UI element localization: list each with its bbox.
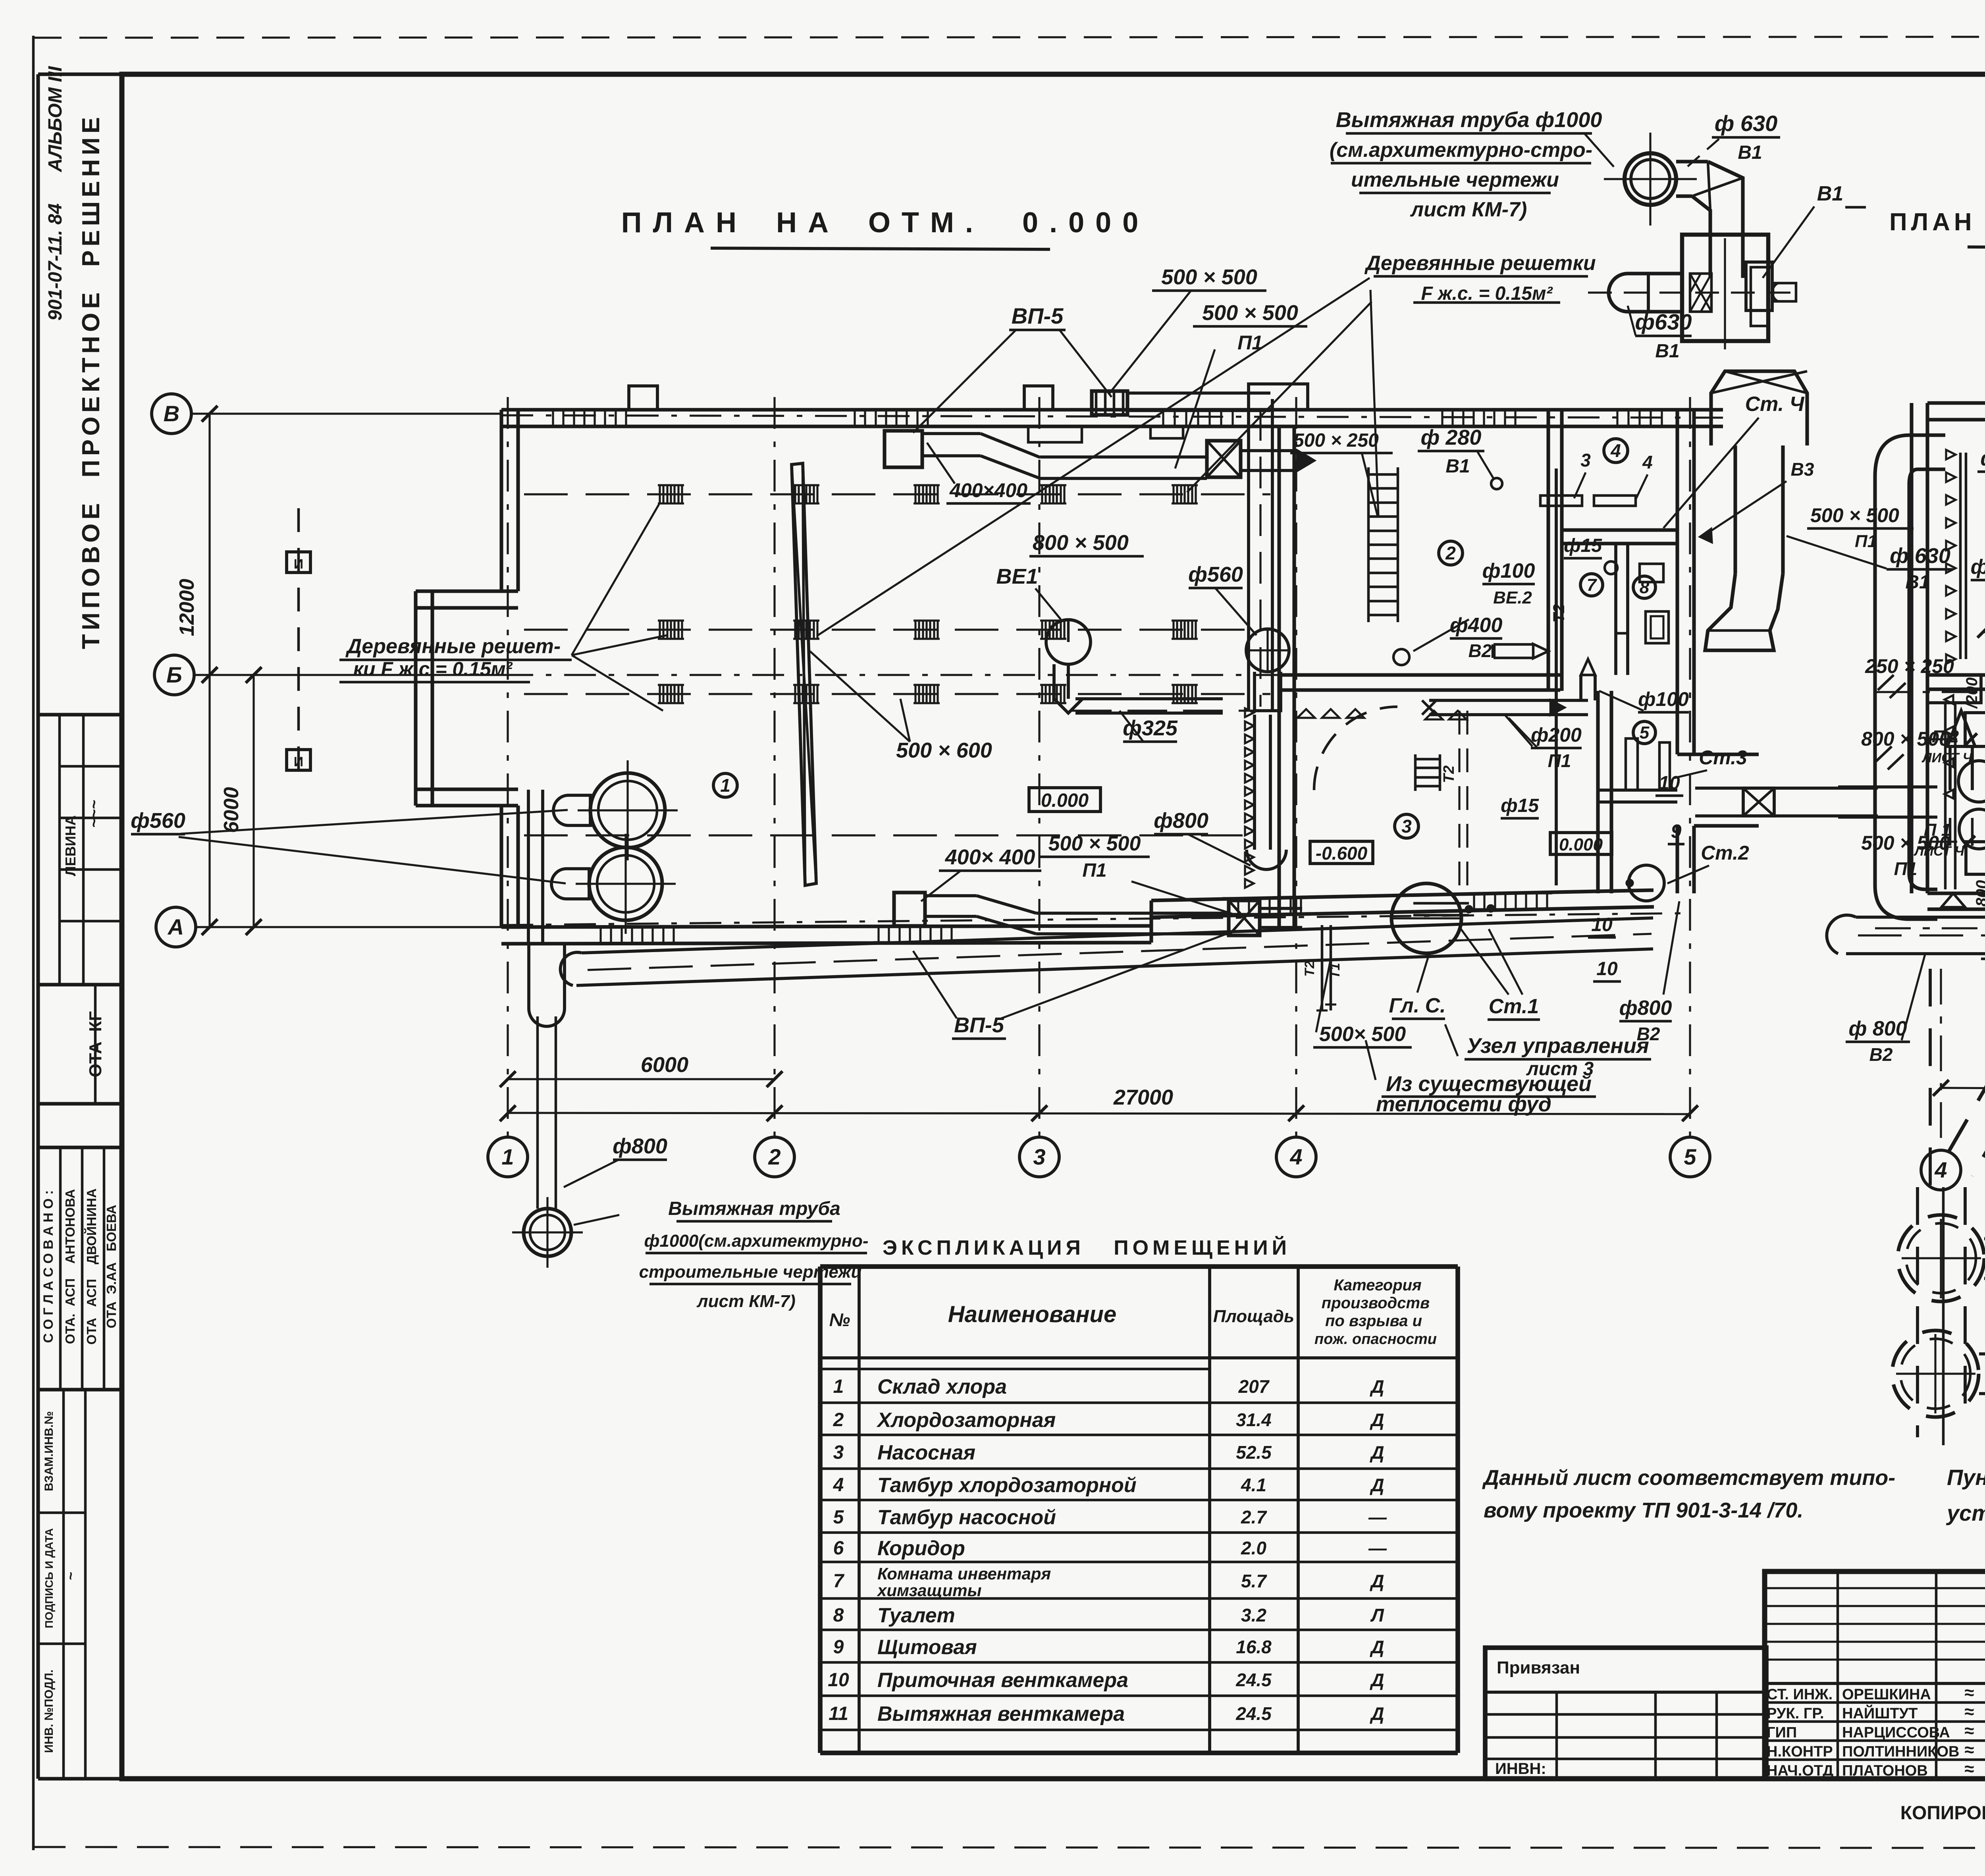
svg-text:Щитовая: Щитовая xyxy=(877,1636,977,1659)
svg-text:ительные чертежи: ительные чертежи xyxy=(1351,168,1559,191)
svg-text:Д: Д xyxy=(1369,1376,1384,1397)
svg-text:3: 3 xyxy=(833,1442,844,1463)
svg-text:7: 7 xyxy=(833,1571,845,1592)
svg-text:В1: В1 xyxy=(1445,456,1470,477)
svg-text:Деревянные решетки: Деревянные решетки xyxy=(1364,252,1596,275)
svg-text:3.2: 3.2 xyxy=(1241,1605,1266,1625)
svg-text:ф 630: ф 630 xyxy=(1890,544,1950,568)
svg-text:Вытяжная труба: Вытяжная труба xyxy=(668,1198,840,1219)
svg-text:Т2: Т2 xyxy=(1441,765,1457,783)
svg-text:производств: производств xyxy=(1322,1294,1430,1312)
svg-text:F ж.с. = 0.15м²: F ж.с. = 0.15м² xyxy=(1421,283,1553,304)
svg-text:1: 1 xyxy=(720,775,730,796)
svg-text:Вытяжная труба ф1000: Вытяжная труба ф1000 xyxy=(1336,108,1602,132)
svg-text:0.000: 0.000 xyxy=(1041,790,1089,811)
svg-text:500 × 500: 500 × 500 xyxy=(1202,301,1298,325)
svg-text:ф800: ф800 xyxy=(613,1134,667,1158)
svg-text:ОТА АСП ДВОЙНИНА: ОТА АСП ДВОЙНИНА xyxy=(84,1188,99,1344)
svg-text:≈: ≈ xyxy=(1964,1759,1974,1779)
svg-text:В2: В2 xyxy=(1869,1044,1893,1065)
svg-text:ф 630: ф 630 xyxy=(1715,111,1778,136)
svg-text:5: 5 xyxy=(833,1507,844,1528)
svg-text:2: 2 xyxy=(833,1409,844,1431)
svg-text:3: 3 xyxy=(1033,1144,1045,1169)
svg-text:ф1000(см.архитектурно-: ф1000(см.архитектурно- xyxy=(644,1231,868,1251)
svg-text:6: 6 xyxy=(833,1538,844,1559)
svg-text:ИНВН:: ИНВН: xyxy=(1495,1760,1546,1778)
svg-text:П Л А Н Н А О Т М .: П Л А Н Н А О Т М . 0 . 0 0 0 xyxy=(621,207,1140,239)
svg-text:≈: ≈ xyxy=(1964,1721,1974,1741)
svg-text:В2: В2 xyxy=(1469,640,1492,661)
svg-text:Н.КОНТР: Н.КОНТР xyxy=(1767,1743,1833,1760)
svg-text:12000: 12000 xyxy=(175,579,198,636)
svg-text:Д: Д xyxy=(1369,1637,1384,1657)
svg-text:Хлордозаторная: Хлордозаторная xyxy=(876,1409,1056,1432)
svg-text:ф100: ф100 xyxy=(1638,688,1689,710)
svg-text:П 1: П 1 xyxy=(1924,820,1951,840)
svg-text:4: 4 xyxy=(1934,1157,1947,1182)
svg-text:1: 1 xyxy=(833,1376,844,1397)
svg-text:Т1: Т1 xyxy=(1328,963,1343,979)
svg-text:500 × 250: 500 × 250 xyxy=(1293,430,1379,451)
svg-text:500× 500: 500× 500 xyxy=(1319,1023,1406,1046)
svg-text:Гл. С.: Гл. С. xyxy=(1389,994,1445,1017)
svg-text:10: 10 xyxy=(1596,958,1618,979)
svg-text:ПОДПИСЬ И ДАТА: ПОДПИСЬ И ДАТА xyxy=(43,1528,55,1628)
svg-text:500 × 600: 500 × 600 xyxy=(896,738,992,762)
svg-text:10: 10 xyxy=(1659,773,1680,794)
svg-text:ф630: ф630 xyxy=(1635,309,1692,334)
svg-text:400× 400: 400× 400 xyxy=(945,845,1035,869)
svg-text:9: 9 xyxy=(833,1637,844,1658)
svg-text:800: 800 xyxy=(1973,880,1985,907)
svg-text:Привязан: Привязан xyxy=(1497,1658,1580,1677)
svg-text:Д: Д xyxy=(1369,1475,1384,1495)
svg-text:Комната инвентаря: Комната инвентаря xyxy=(877,1564,1051,1583)
svg-text:2.0: 2.0 xyxy=(1241,1538,1266,1558)
svg-text:ф15: ф15 xyxy=(1501,795,1539,816)
svg-text:П1: П1 xyxy=(1894,858,1918,879)
svg-text:8: 8 xyxy=(833,1605,844,1626)
svg-text:НАРЦИССОВА: НАРЦИССОВА xyxy=(1842,1724,1950,1741)
svg-text:ОТА. АСП АНТОНОВА: ОТА. АСП АНТОНОВА xyxy=(63,1189,77,1344)
svg-text:СТ. ИНЖ.: СТ. ИНЖ. xyxy=(1767,1686,1833,1703)
svg-text:4: 4 xyxy=(1289,1144,1302,1169)
svg-text:4: 4 xyxy=(1642,452,1653,472)
svg-text:5: 5 xyxy=(1684,1144,1696,1169)
svg-text:8: 8 xyxy=(1640,578,1650,597)
svg-text:ОТА Э.АА БОЕВА: ОТА Э.АА БОЕВА xyxy=(104,1205,119,1328)
svg-text:Туалет: Туалет xyxy=(877,1604,955,1627)
svg-text:/200: /200 xyxy=(1963,677,1981,709)
svg-text:КОПИРОВАЛ: КОРШУНОВА: КОПИРОВАЛ: КОРШУНОВА xyxy=(1900,1803,1985,1824)
svg-text:химзащиты: химзащиты xyxy=(877,1581,982,1600)
svg-text:31.4: 31.4 xyxy=(1236,1409,1272,1430)
svg-text:Узел управления: Узел управления xyxy=(1467,1034,1649,1058)
svg-text:Площадь: Площадь xyxy=(1213,1307,1294,1326)
svg-text:по взрыва и: по взрыва и xyxy=(1325,1312,1422,1330)
svg-text:4: 4 xyxy=(1610,440,1621,461)
svg-text:(см.архитектурно-стро-: (см.архитектурно-стро- xyxy=(1330,139,1592,162)
svg-text:ПЛАН НА ОТМ. 3.200: ПЛАН НА ОТМ. 3.200 xyxy=(1889,208,1985,236)
svg-text:ЛИСТ Ч: ЛИСТ Ч xyxy=(1913,844,1964,859)
svg-text:ВП-5: ВП-5 xyxy=(1012,303,1064,328)
svg-text:В: В xyxy=(164,401,179,426)
svg-text:Приточная венткамера: Приточная венткамера xyxy=(877,1669,1128,1692)
svg-text:ф200: ф200 xyxy=(1531,724,1582,746)
svg-text:Ст.2: Ст.2 xyxy=(1701,842,1749,864)
svg-text:ф800: ф800 xyxy=(1154,809,1208,833)
svg-text:И: И xyxy=(294,557,303,572)
svg-text:ВЕ1: ВЕ1 xyxy=(996,565,1038,588)
svg-text:П1: П1 xyxy=(1082,860,1106,881)
svg-text:400×400: 400×400 xyxy=(949,479,1027,501)
svg-text:ВЗАМ.ИНВ.№: ВЗАМ.ИНВ.№ xyxy=(42,1411,56,1491)
svg-text:7: 7 xyxy=(1587,575,1598,595)
svg-text:ф325: ф325 xyxy=(1123,716,1178,740)
svg-text:9: 9 xyxy=(1671,821,1682,842)
svg-text:В3: В3 xyxy=(1791,459,1814,480)
svg-text:ф 800: ф 800 xyxy=(1848,1017,1907,1040)
svg-text:Д: Д xyxy=(1369,1409,1384,1430)
svg-text:Тамбур насосной: Тамбур насосной xyxy=(877,1506,1056,1529)
svg-text:Д: Д xyxy=(1369,1670,1384,1690)
svg-text:ВП-5: ВП-5 xyxy=(954,1013,1004,1037)
svg-text:~~~: ~~~ xyxy=(85,800,103,828)
svg-text:С О Г Л А С О В А Н О :: С О Г Л А С О В А Н О : xyxy=(41,1190,56,1343)
svg-text:ТИПОВОЕ ПРОЕКТНОЕ РЕШЕНИЕ: ТИПОВОЕ ПРОЕКТНОЕ РЕШЕНИЕ xyxy=(77,113,105,649)
svg-text:Категория: Категория xyxy=(1334,1276,1421,1294)
svg-text:901-07-11. 84: 901-07-11. 84 xyxy=(45,203,66,320)
svg-text:Вытяжная венткамера: Вытяжная венткамера xyxy=(877,1702,1125,1726)
svg-text:А: А xyxy=(167,914,184,939)
svg-text:Пунктиром показан вариант: Пунктиром показан вариант xyxy=(1947,1465,1985,1490)
svg-text:теплосети фуд: теплосети фуд xyxy=(1376,1092,1551,1116)
svg-text:ЛЕВИНА: ЛЕВИНА xyxy=(62,815,79,876)
svg-text:ВЕ.2: ВЕ.2 xyxy=(1493,588,1532,607)
svg-text:вому проекту ТП 901-3-14 /70.: вому проекту ТП 901-3-14 /70. xyxy=(1484,1498,1803,1522)
svg-text:500 × 500: 500 × 500 xyxy=(1048,832,1141,855)
svg-text:4.1: 4.1 xyxy=(1241,1475,1266,1495)
svg-text:ПОЛТИННИКОВ: ПОЛТИННИКОВ xyxy=(1842,1743,1960,1760)
svg-text:№: № xyxy=(829,1309,850,1330)
svg-text:207: 207 xyxy=(1238,1376,1270,1397)
svg-text:лист КМ-7): лист КМ-7) xyxy=(1410,198,1527,221)
svg-text:ф800: ф800 xyxy=(1619,997,1672,1020)
svg-text:1: 1 xyxy=(501,1144,514,1169)
svg-text:≈: ≈ xyxy=(1964,1740,1974,1760)
svg-text:Данный лист соответствует типо: Данный лист соответствует типо- xyxy=(1482,1466,1895,1490)
svg-text:10: 10 xyxy=(1591,914,1613,935)
svg-text:Д: Д xyxy=(1369,1571,1384,1591)
svg-text:ПЛАТОНОВ: ПЛАТОНОВ xyxy=(1842,1762,1928,1779)
svg-text:Насосная: Насосная xyxy=(877,1441,975,1464)
svg-text:ки F ж.с = 0.15м²: ки F ж.с = 0.15м² xyxy=(353,658,513,680)
svg-text:П1: П1 xyxy=(1548,750,1571,771)
svg-text:500 × 500: 500 × 500 xyxy=(1161,265,1257,289)
svg-text:Т2: Т2 xyxy=(1550,604,1568,623)
svg-text:В1: В1 xyxy=(1817,182,1843,205)
svg-text:ИНВ. №ПОДЛ.: ИНВ. №ПОДЛ. xyxy=(42,1670,56,1753)
svg-text:ф 280: ф 280 xyxy=(1980,447,1985,470)
svg-text:пож. опасности: пож. опасности xyxy=(1314,1331,1437,1348)
svg-text:6000: 6000 xyxy=(220,787,243,833)
svg-text:52.5: 52.5 xyxy=(1236,1442,1272,1463)
svg-text:4: 4 xyxy=(833,1475,844,1496)
svg-text:ЛИСТ Ч: ЛИСТ Ч xyxy=(1921,750,1972,765)
svg-text:НАЧ.ОТД: НАЧ.ОТД xyxy=(1767,1762,1833,1779)
svg-text:≈: ≈ xyxy=(1964,1683,1974,1702)
svg-text:2.7: 2.7 xyxy=(1241,1507,1267,1527)
svg-text:5.7: 5.7 xyxy=(1241,1571,1267,1591)
svg-text:НАЙШТУТ: НАЙШТУТ xyxy=(1842,1704,1918,1722)
svg-text:3: 3 xyxy=(1580,450,1591,470)
svg-text:ЭКСПЛИКАЦИЯ ПОМЕЩЕНИЙ: ЭКСПЛИКАЦИЯ ПОМЕЩЕНИЙ xyxy=(883,1236,1291,1259)
svg-text:Коридор: Коридор xyxy=(877,1537,965,1560)
svg-text:Д: Д xyxy=(1369,1703,1384,1724)
svg-text:~: ~ xyxy=(62,1572,79,1580)
svg-text:24.5: 24.5 xyxy=(1235,1670,1272,1690)
svg-text:ф400: ф400 xyxy=(1971,555,1985,578)
svg-text:Деревянные решет-: Деревянные решет- xyxy=(345,635,561,658)
svg-text:Т2: Т2 xyxy=(1302,961,1317,977)
svg-text:Ст. Ч: Ст. Ч xyxy=(1745,393,1805,416)
svg-text:500 × 500: 500 × 500 xyxy=(1810,504,1899,526)
svg-text:Ст.3: Ст.3 xyxy=(1699,746,1747,769)
svg-text:установки скрубберов на улице.: установки скрубберов на улице. xyxy=(1946,1500,1985,1525)
svg-text:0.000: 0.000 xyxy=(1559,835,1603,854)
svg-text:ОРЕШКИНА: ОРЕШКИНА xyxy=(1842,1686,1931,1703)
svg-text:Л: Л xyxy=(1370,1605,1384,1625)
svg-text:6000: 6000 xyxy=(641,1053,688,1077)
svg-text:—: — xyxy=(1368,1538,1387,1558)
svg-text:РУК. ГР.: РУК. ГР. xyxy=(1767,1705,1824,1722)
svg-text:5: 5 xyxy=(1640,723,1650,742)
svg-text:ф560: ф560 xyxy=(1188,563,1243,586)
svg-text:В1: В1 xyxy=(1738,142,1762,163)
svg-text:ф 280: ф 280 xyxy=(1421,426,1482,449)
svg-text:Наименование: Наименование xyxy=(948,1301,1116,1327)
svg-text:—: — xyxy=(1368,1507,1387,1527)
svg-text:И: И xyxy=(294,754,303,769)
svg-text:16.8: 16.8 xyxy=(1236,1637,1272,1657)
svg-text:2: 2 xyxy=(1445,543,1456,563)
svg-text:Ст.1: Ст.1 xyxy=(1489,995,1539,1018)
svg-text:-0.600: -0.600 xyxy=(1316,843,1368,864)
svg-text:800 × 500: 800 × 500 xyxy=(1033,531,1129,555)
svg-text:ф560: ф560 xyxy=(131,809,185,833)
svg-text:Д: Д xyxy=(1369,1442,1384,1463)
svg-text:ф100: ф100 xyxy=(1482,559,1535,582)
svg-text:Б: Б xyxy=(166,662,182,687)
svg-text:ф15: ф15 xyxy=(1564,535,1602,556)
svg-text:24.5: 24.5 xyxy=(1235,1703,1272,1724)
svg-text:≈: ≈ xyxy=(1964,1702,1974,1722)
svg-text:10: 10 xyxy=(828,1670,849,1691)
svg-text:Тамбур хлордозаторной: Тамбур хлордозаторной xyxy=(877,1474,1137,1497)
svg-text:3: 3 xyxy=(1401,816,1412,837)
svg-text:лист КМ-7): лист КМ-7) xyxy=(696,1292,796,1311)
svg-text:АЛЬБОМ III: АЛЬБОМ III xyxy=(45,66,66,172)
svg-text:27000: 27000 xyxy=(1113,1085,1173,1109)
svg-text:ГИП: ГИП xyxy=(1767,1724,1797,1741)
svg-text:В1: В1 xyxy=(1655,341,1679,362)
svg-text:Склад хлора: Склад хлора xyxy=(877,1375,1007,1398)
svg-text:2: 2 xyxy=(768,1144,781,1169)
svg-text:11: 11 xyxy=(829,1703,848,1724)
